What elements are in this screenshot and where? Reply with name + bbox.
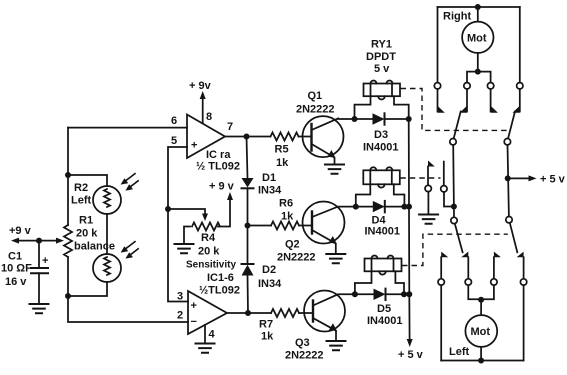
contact circle A3 [487,83,493,89]
svg-text:+ 9 v: + 9 v [209,181,235,193]
diode D3 IN4001 (pointing right) [373,113,385,124]
resistor R6 1k body [271,222,299,230]
svg-text:D3: D3 [374,129,388,141]
svg-text:IN4001: IN4001 [365,226,400,238]
wire: junction to R4 wiper arrow [168,209,205,214]
wire: branch to photoresistor R2 top [68,175,107,186]
svg-text:2N2222: 2N2222 [296,104,335,116]
svg-text:2N2222: 2N2222 [277,252,316,264]
contact circle A2 [464,83,470,89]
photoresistor R3 internal zigzag [104,257,110,275]
wire: left motor top lead [480,299,482,315]
resistor R7 1k body [271,309,299,317]
transistor Q2 collector [312,207,356,217]
dashed linkage from relay3 to lower contacts [402,234,508,265]
aux stationary contact flag [428,161,435,167]
svg-text:R6: R6 [279,198,293,210]
diode D1 IN34 (cathode down) [242,178,254,188]
svg-text:IC1-6: IC1-6 [207,272,234,284]
wire: left rail top corner from pin6 line down to R1 [67,128,69,225]
wire: R5 to Q1 base [299,136,312,138]
svg-text:10 ΩF: 10 ΩF [1,263,32,275]
ground under C1 [30,304,49,313]
svg-text:−: − [191,316,197,328]
ground under Q2 emitter [326,254,345,263]
svg-text:2N2222: 2N2222 [285,350,324,362]
svg-text:8: 8 [206,111,212,123]
wire: aux right contact stem [443,162,445,186]
svg-text:+: + [191,140,197,152]
transistor Q3 base bar [312,301,314,322]
svg-text:5 v: 5 v [374,63,390,75]
svg-text:DPDT: DPDT [366,51,396,63]
motor M1 Right body circle [462,22,493,53]
wire: left motor box left vertical [440,285,442,360]
node: junction bottom rail / left motor [478,358,484,364]
wire: op-amp U1 pin 5 to junction column [168,147,187,209]
node: junction right motor bottom T [475,69,481,75]
wire: RY1 right lead down to D3 cathode node [394,96,409,119]
op-amp U1 pin 8 supply wire [202,98,204,123]
resistor R5 1k body [271,133,299,141]
wire: R4 right lead to +9v arrow [218,199,230,227]
transistor Q1 collector [312,119,355,131]
node: junction left rail to R2 branch [65,172,71,178]
svg-text:IN34: IN34 [258,278,282,290]
svg-text:20 k: 20 k [76,228,98,240]
wire: D5 cathode to rail [386,293,410,295]
aux contact circle right [441,186,447,192]
wire: to D4 [356,206,373,208]
contact circle B1 [438,279,444,285]
wire: left motor box right vertical [523,285,525,360]
svg-text:Q3: Q3 [295,337,310,349]
node: junction Q1 collector / D3 anode / RY1 [352,116,358,122]
op-amp U1 (IC1-a half TL092) triangle [187,115,225,159]
svg-text:6: 6 [171,115,177,127]
power +5v arrowhead right [529,175,537,181]
wire: C1 bottom lead [38,273,40,303]
wire: +5v rail vertical [408,119,411,340]
ground under op-amp U2 pin 4 [196,344,215,353]
svg-text:R2: R2 [74,182,88,194]
svg-text:+ 9v: + 9v [189,80,212,92]
transistor Q3 collector [313,294,355,305]
wire: D2 anode down to op-amp2 output node [247,276,250,314]
wire: right motor bottom lead [477,53,479,72]
wire: D4 cathode to rail [385,206,409,208]
aux contact circle left [425,185,431,191]
svg-text:5: 5 [171,135,177,147]
ground under Q3 emitter [327,341,346,350]
photoresistor R3 body circle [93,254,121,282]
node: junction left rail to lower photoresistor branch [65,293,71,299]
svg-text:4: 4 [209,329,216,341]
transistor Q1 2N2222 body circle [303,116,344,157]
pivot contact circle pole1 [450,139,456,145]
svg-text:R4: R4 [201,232,216,244]
diode D4 IN4001 (pointing right) [373,201,385,212]
svg-text:Sensitivity: Sensitivity [186,260,236,271]
wire: op-amp U2 output [227,312,248,314]
contact circle B4 [520,279,526,285]
transistor Q2 base bar [311,212,313,234]
light arrow 2 into R2 [129,181,138,188]
stationary contact flag B3 [494,252,501,258]
relay arm upper pole 2 [508,112,515,139]
wire: pole2 rail down [508,145,509,217]
stationary contact flag A2 [466,89,468,112]
node: junction rail at D5 [406,291,412,297]
light arrow 2 into R3 [129,249,138,256]
stationary contact flag A1 [437,89,439,112]
svg-text:+ 5 v: + 5 v [540,174,566,186]
pivot contact circle pole2 [504,139,510,145]
svg-text:Q1: Q1 [308,90,323,102]
svg-text:3: 3 [177,291,183,303]
node: junction Q3 collector / D5 anode / relay3 [352,291,358,297]
light arrow 1 into R3 [125,242,136,250]
wire: D3 cathode to rail node [385,118,409,120]
svg-text:RY1: RY1 [371,39,392,51]
relay coil 2 body [363,170,400,184]
wire: relay3 left lead down to D5 node [355,271,372,294]
svg-text:Q2: Q2 [285,239,300,251]
relay RY1 coil body [364,84,401,97]
stationary contact flag A4 [519,89,521,112]
wire: between R2 and lower photoresistor [106,214,108,254]
wire: right motor top rail [438,6,520,8]
svg-text:+ 5 v: + 5 v [398,349,424,361]
diode D5 IN4001 (pointing right) [374,289,386,300]
wire: pin5 column down to op-amp2 pin 3 [168,209,188,302]
stationary contact flag B4 [517,252,524,258]
wire: aux right contact to pole1 rail junction [444,192,454,207]
svg-text:2: 2 [177,310,183,322]
wire: R4 left lead to ground [184,227,190,244]
capacitor C1 bottom plate [31,272,48,274]
svg-text:+9 v: +9 v [9,225,32,237]
relay coil 3 body [365,259,402,272]
wire: left motor inner T bar [468,285,494,299]
pivot contact circle pole1 lower [451,217,457,223]
node: junction top rail / right motor [475,4,481,10]
wire: node to R6 [248,225,272,227]
svg-text:½TL092: ½TL092 [199,285,240,297]
power +5v arrowhead down at rail bottom [407,339,413,347]
wire: +5v feed arrow line [508,177,530,179]
ground at aux contact [419,215,438,224]
photoresistor R2 body circle [93,186,121,214]
ground under Q1 emitter [325,165,344,174]
wire: R7 to Q3 base [299,312,313,314]
svg-text:IN4001: IN4001 [363,142,398,154]
relay arm lower pole 2 [510,223,518,253]
relay arm upper pole 1 [454,112,461,139]
svg-text:IN4001: IN4001 [367,315,402,327]
wire: RY1 left lead down to D3 node [355,96,371,119]
svg-text:1k: 1k [261,331,274,343]
transistor Q1 base bar [310,124,312,151]
wire: relay2 right lead down to D4 cathode node [394,184,405,206]
node: junction D5 cathode [401,291,407,297]
resistor R4 20k sensitivity potentiometer body [192,223,220,231]
svg-text:Left: Left [71,195,92,207]
transistor Q3 emitter with arrow [313,318,336,341]
stationary contact flag B1 [441,252,448,258]
power +9v arrowhead up at pin 8 [200,91,206,99]
power +9v arrowhead up at R4 [227,192,233,200]
transistor Q2 2N2222 body circle [303,202,345,244]
power +9v arrowhead pointing left [11,238,19,244]
op-amp U2 pin 4 wire to ground [204,325,206,343]
svg-text:20 k: 20 k [198,246,220,258]
svg-text:D5: D5 [377,303,391,315]
wire: +9v feed to R1 wiper [17,240,58,242]
wire: op-amp1 inverting input pin 6 horizontal [68,127,187,129]
op-amp U2 (IC1-b half TL092) triangle [188,291,227,334]
pivot contact circle pole2 lower [506,217,512,223]
svg-text:R5: R5 [275,144,289,156]
svg-text:Right: Right [443,11,471,23]
svg-text:R1: R1 [79,215,93,227]
wire: relay2 left lead down to D4 node [356,184,371,206]
contact circle B2 [465,279,471,285]
node: junction pole1 rail / aux contact [451,204,457,210]
svg-text:+: + [42,255,48,267]
node: junction left motor T [478,297,484,303]
svg-text:½ TL092: ½ TL092 [196,161,240,173]
diode D2 IN34 (cathode up) [247,226,249,265]
wire: op-amp U1 output pin 7 [225,136,247,138]
wire: left rail corner down to op-amp2 pin 2 line [68,296,188,322]
wire: right motor top lead [477,7,479,22]
ground under R4 [175,244,194,253]
node: junction rail at D4 [406,204,412,210]
relay arm lower pole 1 [455,224,463,253]
dashed linkage from relay RY1 to upper contacts [401,89,509,131]
motor M2 Left body circle [465,315,497,347]
svg-text:7: 7 [227,121,233,133]
contact circle B3 [491,279,497,285]
contact circle A4 [517,83,523,89]
wire: branch from lower photoresistor bottom [68,282,107,296]
node: junction D4 cathode [401,204,407,210]
svg-text:Mot: Mot [471,326,491,338]
svg-text:1k: 1k [276,157,289,169]
node: junction D3 cathode / +5v rail [406,116,412,122]
wire: diode column from op-amp1 output down to D1 [247,137,248,179]
photoresistor R2 internal zigzag [104,189,110,207]
svg-text:16 v: 16 v [5,276,27,288]
node: junction Q2 collector / D4 anode / relay2 [353,204,359,210]
svg-text:balance: balance [74,241,115,253]
capacitor C1 top plate [31,267,48,269]
node: junction +9v wire to C1 [36,238,42,244]
wire: right box left vertical [437,7,439,83]
wire: left rail below R1 [67,257,69,296]
stationary contact flag B2 [461,252,468,258]
dashed linkage from relay2 to aux contacts [400,177,440,179]
wire: pole1 rail down [452,145,455,207]
node: junction D1/D2/R6 [245,223,251,229]
wire: right motor T bar to pole contacts [467,72,491,83]
wire: node to R7 [248,312,271,314]
wire: to D5 [355,293,374,295]
wire: R6 to Q2 base [299,225,312,227]
R1 wiper arrowhead pointing right [56,238,64,244]
svg-text:IC ra: IC ra [206,149,231,161]
svg-text:IN34: IN34 [258,185,282,197]
svg-text:Left: Left [449,346,470,358]
node: junction op-amp2 output / D2 / R7 [245,310,251,316]
wire: left motor bottom lead [480,347,482,361]
node: junction pole2 rail / +5v feed [505,175,511,181]
contact circle A1 [434,83,440,89]
wire: node to R5 [247,136,271,138]
node: junction pin5 column / R4 wiper [165,206,171,212]
wire: left motor box bottom rail [441,360,523,362]
svg-text:D1: D1 [262,172,276,184]
light arrow 1 into R2 [125,174,136,182]
svg-text:+: + [191,300,197,312]
wire: to D3 [355,118,373,120]
wire: D1 cathode to R6 node [247,188,249,225]
wire: C1 top lead [38,241,40,268]
svg-text:1k: 1k [281,211,294,223]
svg-text:R7: R7 [259,319,273,331]
svg-text:C1: C1 [8,251,22,263]
svg-text:D2: D2 [262,264,276,276]
R4 wiper arrowhead down [202,214,208,222]
transistor Q2 emitter with arrow [312,230,336,254]
stationary contact flag A3 [490,89,492,112]
resistor R1 20k balance potentiometer body (vertical zigzag) [64,225,72,257]
transistor Q3 2N2222 body circle [304,291,345,332]
wire: aux left contact to ground [427,192,429,214]
node: junction op-amp1 output / D1 / R5 [244,134,250,140]
wire: right box right vertical [519,7,521,83]
wire: relay3 right lead down to D5 cathode node [395,271,404,294]
transistor Q1 emitter with arrow [312,144,335,164]
wire: pole1 rail to lower pivot [453,207,455,218]
svg-text:Mot: Mot [467,33,487,45]
